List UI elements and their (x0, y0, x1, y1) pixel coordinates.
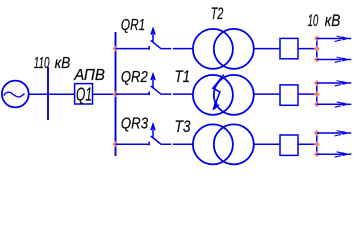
box feeder cell T1 (280, 85, 298, 105)
wire generator to Q1 (28, 93, 74, 95)
feeder arrow T2 bottom (317, 57, 352, 62)
junction node QR2 (112, 91, 118, 97)
breaker Q1 (75, 84, 93, 104)
distribution bus (115, 32, 117, 156)
wire box to 10kV bus T3 (298, 143, 317, 145)
wire box to 10kV bus T2 (298, 48, 317, 50)
junction node QR1 (112, 45, 118, 51)
svg-text:Q1: Q1 (76, 84, 92, 104)
tap changer arrow T1 (213, 75, 224, 110)
busbar 110 kV tick (47, 67, 49, 120)
feeder arrow T3 top (317, 131, 352, 136)
wire T3 to box (253, 143, 280, 145)
svg-text:QR2: QR2 (121, 69, 148, 86)
wire Q1 to bus (93, 93, 116, 95)
junction nodes 10kV bus T3 (314, 130, 320, 157)
svg-text:Т2: Т2 (211, 4, 224, 23)
feeder arrow T2 top (317, 36, 352, 41)
svg-text:кВ: кВ (325, 12, 341, 30)
svg-text:АПВ: АПВ (73, 67, 105, 84)
10 kV bus T1 (316, 83, 318, 104)
svg-text:10: 10 (308, 12, 319, 30)
feeder arrow T1 bottom (317, 102, 352, 107)
svg-text:QR1: QR1 (121, 17, 145, 34)
box feeder cell T2 (280, 38, 298, 58)
disconnector QR1 (116, 29, 194, 50)
transformer T2 (193, 29, 254, 69)
svg-text:кВ: кВ (55, 55, 71, 72)
wire box to 10kV bus T1 (298, 93, 317, 95)
wire T2 to box (253, 48, 280, 50)
wire T1 to box (253, 93, 280, 95)
svg-text:110: 110 (34, 55, 50, 72)
junction nodes 10kV bus T2 (314, 36, 320, 63)
svg-text:QR3: QR3 (121, 116, 148, 133)
transformer T1 (193, 75, 254, 115)
svg-text:Т1: Т1 (175, 67, 191, 86)
junction nodes 10kV bus T1 (314, 80, 320, 107)
junction node QR3 (112, 141, 118, 147)
feeder arrow T3 bottom (317, 152, 352, 157)
feeder arrow T1 top (317, 81, 352, 86)
disconnector QR2 (116, 74, 194, 95)
transformer T3 (193, 124, 254, 164)
generator G1 (2, 81, 29, 108)
10 kV bus T2 (316, 39, 318, 60)
disconnector QR3 (116, 124, 194, 145)
10 kV bus T3 (316, 133, 318, 154)
svg-text:Т3: Т3 (175, 117, 191, 136)
box feeder cell T3 (280, 135, 298, 155)
